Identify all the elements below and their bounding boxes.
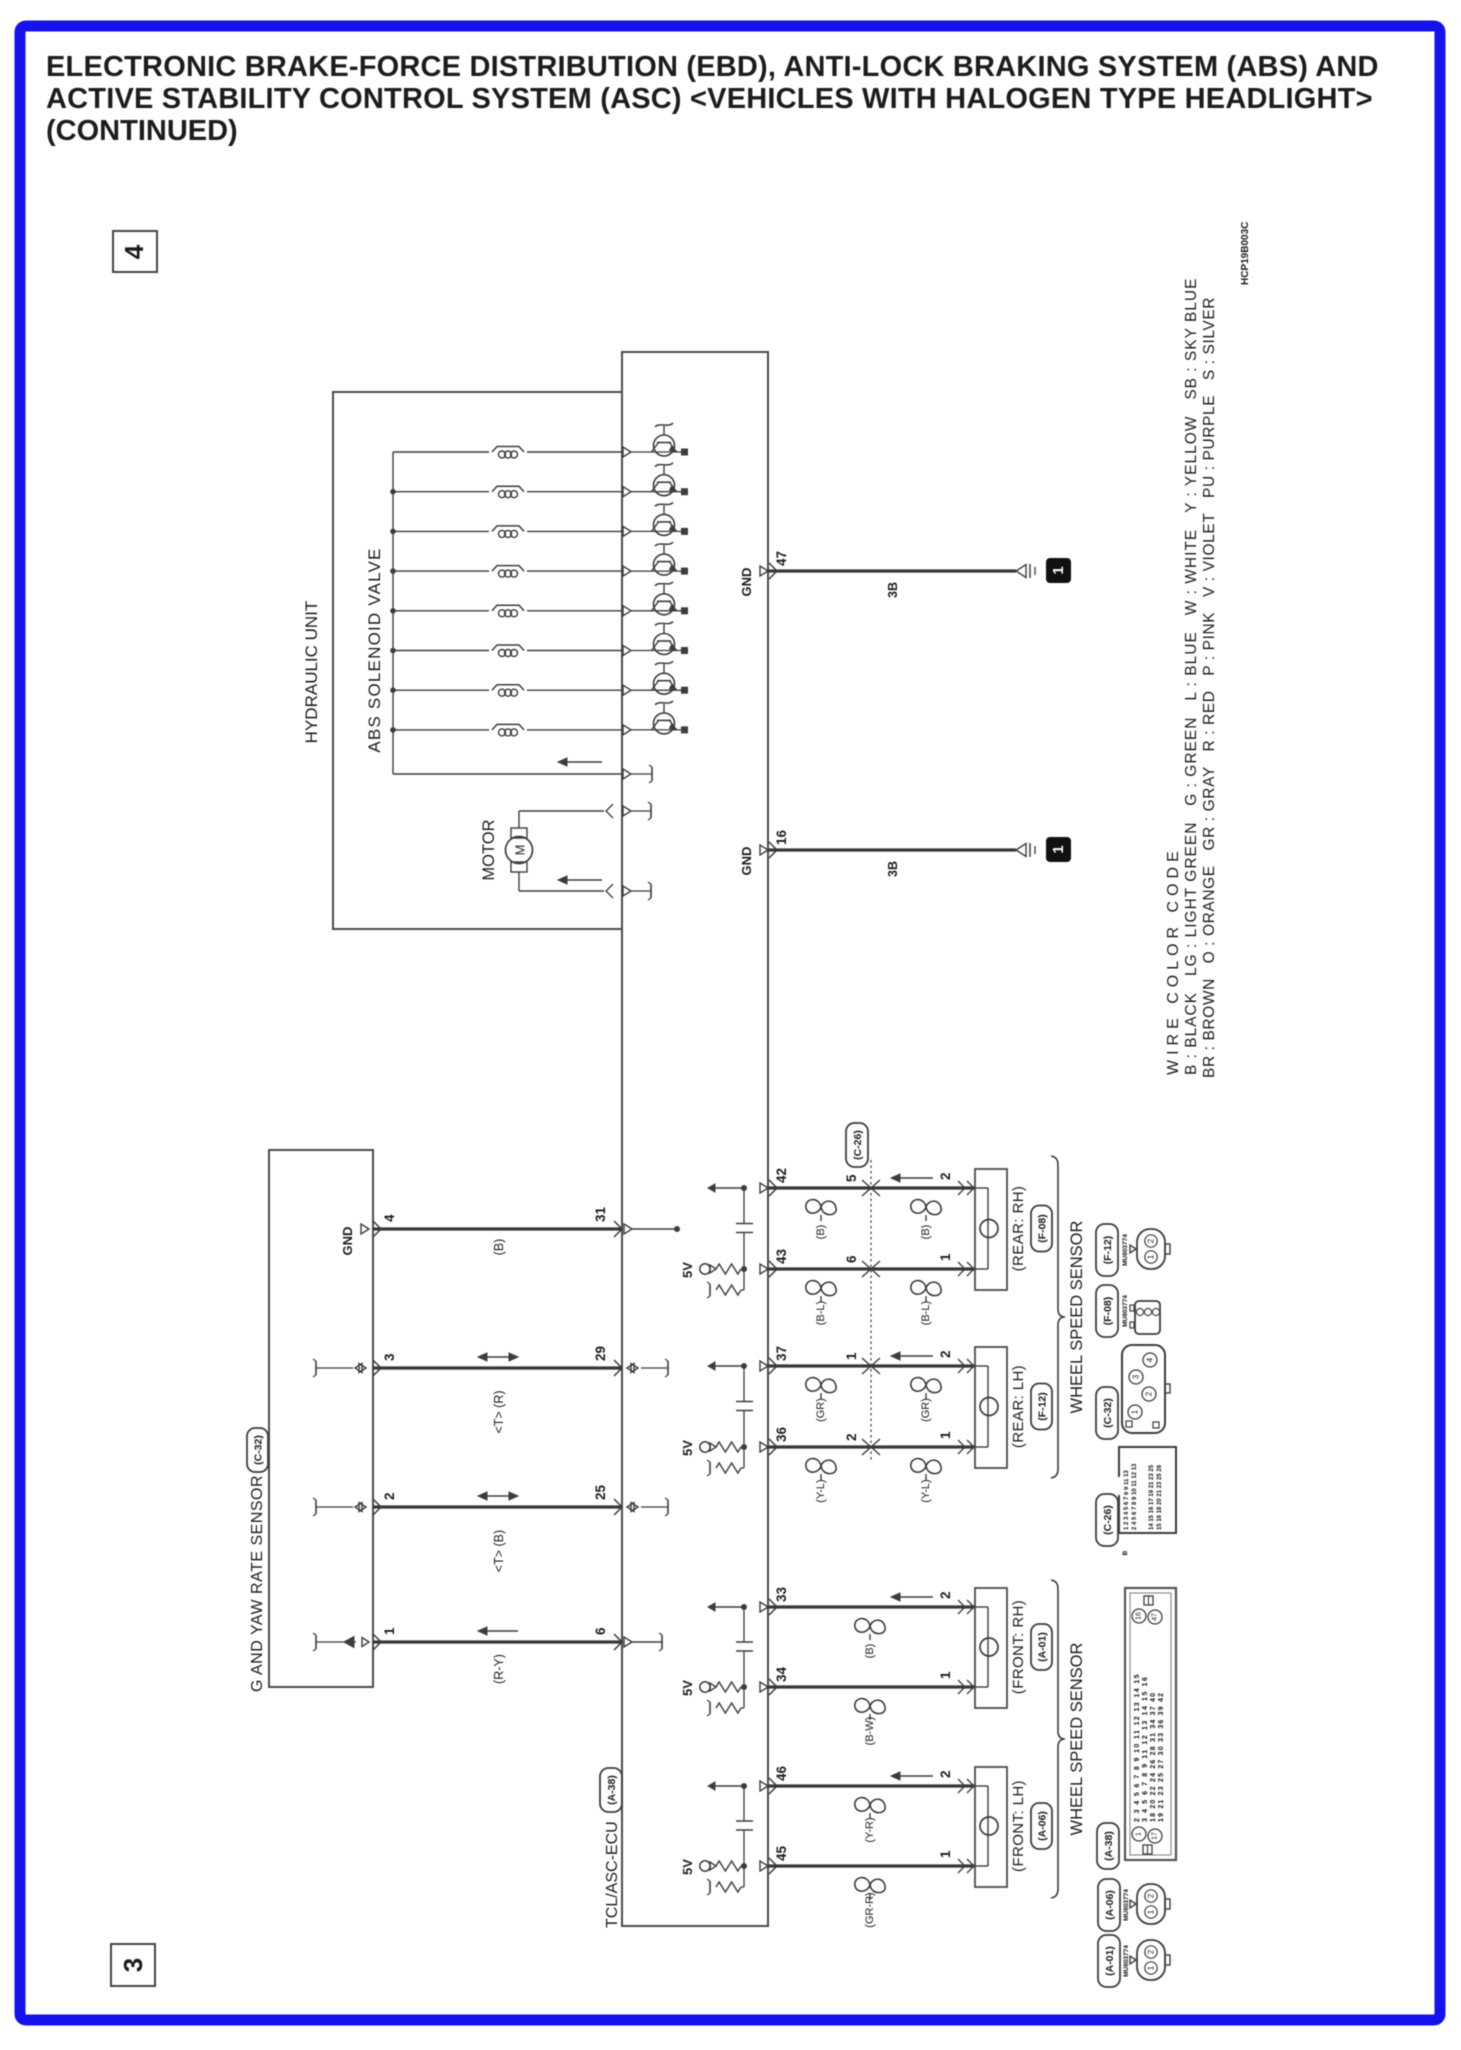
ECU pin 36 (REAR: LH) [760,1442,768,1452]
connector C-26 detail label [1096,1494,1118,1546]
svg-text:16: 16 [1136,1612,1143,1620]
svg-text:1: 1 [1131,1409,1140,1414]
svg-text:1 2 3 4 5 6 7 8 9 11 13: 1 2 3 4 5 6 7 8 9 11 13 [1124,1470,1130,1530]
bus junction node 3 [390,529,396,535]
ECU pin (solenoid return) [623,769,631,779]
wheel speed sensor wire 43 (REAR: RH) [768,1267,975,1270]
ECU internal termination (pin 25) [627,1503,634,1512]
twisted wire symbol (FRONT: RH 34) [855,1699,885,1714]
signal junction node (FRONT: LH) [741,1783,747,1789]
twisted wire symbol right (REAR: LH 37) [911,1378,941,1393]
ECU internal node (pin 6) [624,1637,632,1647]
solenoid valve coil L3 [492,526,524,532]
bus junction node 2 [390,489,396,495]
ECU pin 42 (REAR: RH) [760,1183,768,1193]
connector C-26 pin view [1119,1447,1176,1533]
svg-text:5: 5 [844,1174,859,1182]
svg-text:GND: GND [739,847,754,876]
svg-text:36: 36 [774,1426,789,1442]
svg-text:18 20 22 24 26 28 31 34 37 40: 18 20 22 24 26 28 31 34 37 40 [1150,1692,1157,1822]
svg-text:45: 45 [774,1845,789,1861]
ECU pin 6 [614,1634,622,1650]
driver transistor Q7 [654,673,675,694]
svg-text:(C-32): (C-32) [1102,1398,1114,1428]
connector C-32 pin view [1122,1345,1165,1433]
svg-text:(B-L): (B-L) [815,1301,827,1325]
svg-text:MU803774: MU803774 [1122,1295,1129,1327]
C-26 crossing mark (pin 5) [862,1180,871,1196]
ECU connector label A-38 [600,1768,622,1812]
solenoid valve coil L1 [492,447,524,453]
wheel speed sensor brace (rear) [1051,1156,1065,1478]
wheel speed sensor FRONT: RH (A-01) [975,1588,1007,1708]
solenoid valve coil L5 [492,605,524,611]
wire direction arrow [485,1630,518,1632]
ECU pin (solenoid 1) [623,447,631,457]
svg-text:(F-12): (F-12) [1036,1392,1048,1421]
svg-text:MU803774: MU803774 [1122,1234,1129,1266]
svg-text:MOTOR: MOTOR [480,819,498,880]
connector A-06 label [1098,1879,1120,1931]
motor + internal termination [650,804,652,818]
svg-text:2: 2 [938,1770,953,1778]
svg-text:TCL/ASC-ECU: TCL/ASC-ECU [604,1821,621,1928]
svg-text:16: 16 [774,829,789,845]
svg-text:3: 3 [1132,1374,1141,1379]
ECU pin (solenoid 4) [623,566,631,576]
svg-text:B: B [1122,1550,1129,1555]
wheel speed sensor brace (front) [1051,1580,1065,1898]
ECU internal termination (pin 29) [627,1364,634,1373]
connector C-32 label [1096,1387,1118,1439]
driver transistor Q5 [654,594,675,615]
driver transistor Q1 [654,435,675,456]
svg-text:(A-38): (A-38) [1103,1831,1115,1861]
svg-text:(C-26): (C-26) [852,1130,864,1160]
ground reference box 1 (pin 47) [1046,558,1071,583]
ECU pin (motor +) [623,806,631,816]
yaw sensor wire 2-25 [373,1505,622,1508]
svg-text:47: 47 [1152,1613,1159,1621]
solenoid valve coil L7 [492,685,524,691]
solenoid valve coil L8 [492,724,524,730]
chassis ground (pin 47) [1016,565,1026,578]
svg-text:(B): (B) [864,1644,876,1659]
ECU pin 46 (FRONT: LH) [760,1781,768,1791]
pump motor M1 [506,837,533,864]
sensor connector pin (REAR: RH 43) [958,1262,965,1276]
svg-text:2: 2 [1147,1893,1156,1898]
svg-text:19 21 23 25 27 30 33 36 39 42: 19 21 23 25 27 30 33 36 39 42 [1158,1692,1165,1822]
ground wire from pin 47 [768,569,1016,572]
connector F-08 pin view [1135,1301,1160,1334]
svg-text:1: 1 [938,1431,953,1439]
ECU pin (solenoid 8) [623,725,631,735]
sensor pin 4 [373,1221,381,1237]
svg-text:29: 29 [593,1346,608,1361]
ECU pin (solenoid 6) [623,646,631,656]
svg-text:2: 2 [938,1591,953,1599]
ECU pin 31 [614,1221,622,1237]
twisted wire symbol left (REAR: LH 37) [806,1378,836,1393]
solenoid return wire [393,773,622,775]
driver transistor Q6 [654,634,675,655]
svg-text:WHEEL SPEED SENSOR: WHEEL SPEED SENSOR [1068,1220,1086,1413]
svg-text:4: 4 [1146,1357,1155,1362]
connector A-38 label [1097,1823,1119,1869]
filter capacitor (FRONT: RH) [743,1607,745,1642]
svg-text:<T> (B): <T> (B) [492,1530,506,1572]
filter capacitor (FRONT: LH) [743,1786,745,1821]
svg-text:4: 4 [382,1214,397,1222]
solenoid valve coil L5 wire [393,610,489,612]
solenoid valve coil L4 wire [393,570,489,572]
svg-text:(A-01): (A-01) [1036,1632,1048,1662]
sensor connector pin (FRONT: RH 34) [958,1680,965,1694]
svg-text:3: 3 [382,1353,397,1361]
sensor connector label A-01 [1031,1624,1052,1670]
sensor connector pin (REAR: RH 42) [958,1181,965,1195]
driver transistor Q8 [654,713,675,734]
svg-text:1: 1 [938,1253,953,1261]
connector C-26 label [846,1123,868,1167]
ground wire from pin 16 [768,848,1016,851]
svg-text:2: 2 [1145,1391,1154,1396]
svg-text:2: 2 [1147,1949,1156,1954]
connector F-08 label [1096,1285,1118,1337]
svg-text:(REAR: RH): (REAR: RH) [1010,1186,1027,1272]
sensor pin 2 [373,1499,381,1515]
signal direction arrow (FRONT: RH) [898,1596,933,1598]
page link box 4 [113,231,157,272]
svg-text:(Y-R): (Y-R) [864,1817,876,1842]
sensor internal termination (pin 3) [315,1361,317,1375]
ECU pin 25 [614,1499,622,1515]
svg-text:6: 6 [593,1627,608,1635]
filter capacitor (REAR: LH) [743,1366,745,1402]
svg-text:3B: 3B [886,582,900,598]
connector A-01 label [1098,1935,1120,1987]
svg-text:5V: 5V [680,1262,695,1278]
yaw sensor wire 1-6 [373,1640,622,1643]
svg-text:2: 2 [1147,1238,1156,1243]
signal junction node (REAR: RH) [741,1185,747,1191]
wheel speed sensor wire 34 (FRONT: RH) [768,1685,975,1688]
bias resistor R (REAR: RH) [716,1285,741,1295]
solenoid valve coil L6 wire [393,650,489,652]
svg-text:WIRE COLOR CODE: WIRE COLOR CODE [1165,846,1182,1075]
svg-text:1: 1 [938,1850,953,1858]
bus junction node 7 [390,687,396,693]
solenoid valve coil L7 wire [393,689,489,691]
signal junction node (FRONT: RH) [741,1604,747,1610]
sensor connector pin (REAR: LH 37) [958,1359,965,1373]
sensor connector pin (REAR: LH 36) [958,1440,965,1454]
signal direction arrow (REAR: LH) [898,1355,933,1357]
ECU pin (solenoid 3) [623,526,631,536]
driver transistor Q4 [654,554,675,575]
svg-text:(A-01): (A-01) [1104,1946,1116,1976]
ECU pin 16 [760,845,768,855]
twisted wire symbol right (REAR: LH 36) [911,1459,941,1474]
svg-text:GND: GND [340,1227,355,1256]
svg-text:25: 25 [593,1484,608,1500]
svg-text:(R-Y): (R-Y) [492,1654,506,1684]
svg-text:(CONTINUED): (CONTINUED) [46,115,238,147]
svg-text:1: 1 [382,1627,397,1635]
wheel speed sensor REAR: LH (F-12) [975,1347,1007,1468]
twisted pair direction arrow [485,1495,511,1497]
bus junction node 4 [390,568,396,574]
svg-text:MU803774: MU803774 [1123,1889,1130,1921]
svg-text:(A-06): (A-06) [1104,1890,1116,1920]
wheel speed sensor wire 45 (FRONT: LH) [768,1864,975,1867]
svg-text:5V: 5V [680,1859,695,1875]
page link box 3 [111,1944,155,1986]
svg-text:(C-32): (C-32) [252,1435,264,1465]
ECU internal node (pin 31) [624,1224,632,1234]
svg-text:47: 47 [774,551,789,566]
twisted wire symbol right (REAR: RH 43) [911,1281,941,1296]
svg-text:<T> (R): <T> (R) [492,1390,506,1433]
sensor connector label C-32 [247,1428,268,1472]
svg-text:1: 1 [1147,1909,1156,1914]
twisted wire symbol left (REAR: RH 43) [806,1281,836,1296]
ECU pin 37 (REAR: LH) [760,1361,768,1371]
ECU pin (solenoid 7) [623,685,631,695]
ECU pin 33 (FRONT: RH) [760,1602,768,1612]
wheel speed sensor wire 36 (REAR: LH) [768,1445,975,1448]
wheel speed sensor FRONT: LH (A-06) [975,1767,1007,1887]
twisted wire symbol left (REAR: LH 36) [806,1459,836,1474]
twisted wire symbol right (REAR: RH 42) [911,1200,941,1215]
bus junction node 5 [390,608,396,614]
svg-text:(F-08): (F-08) [1102,1297,1114,1326]
solenoid valve coil L1 wire [393,451,489,453]
motor positive wire [518,811,520,828]
svg-text:42: 42 [774,1168,789,1183]
ECU pin 45 (FRONT: LH) [760,1861,768,1871]
yaw sensor wire 3-29 [373,1366,622,1369]
svg-text:ELECTRONIC BRAKE-FORCE DISTRIB: ELECTRONIC BRAKE-FORCE DISTRIBUTION (EBD… [46,51,1379,83]
connector A-38 pin view [1125,1588,1176,1860]
solenoid valve coil L2 [492,486,524,492]
svg-text:(FRONT: LH): (FRONT: LH) [1010,1780,1027,1872]
ECU pin 43 (REAR: RH) [760,1264,768,1274]
svg-text:(A-06): (A-06) [1036,1811,1048,1841]
hydraulic unit box [333,392,622,929]
svg-text:17: 17 [1152,1832,1159,1840]
sensor connector label F-12 [1031,1384,1052,1430]
connector A-01 pin view [1137,1940,1165,1980]
motor negative wire [518,872,520,891]
svg-text:(REAR: LH): (REAR: LH) [1010,1365,1027,1448]
ground reference box 1 (pin 16) [1046,837,1071,862]
C-26 crossing mark (pin 1) [862,1358,871,1374]
svg-text:2: 2 [844,1433,859,1441]
connector F-12 label [1096,1224,1118,1276]
return wire direction arrow [565,761,602,763]
svg-text:(FRONT: RH): (FRONT: RH) [1010,1600,1027,1694]
svg-text:G AND YAW RATE SENSOR: G AND YAW RATE SENSOR [249,1475,266,1692]
svg-text:2: 2 [938,1172,953,1180]
solenoid valve coil L2 wire [393,491,489,493]
svg-text:(Y-L): (Y-L) [815,1479,827,1502]
twisted wire symbol (FRONT: LH 45) [855,1878,885,1893]
wheel speed sensor wire 37 (REAR: LH) [768,1364,975,1367]
svg-text:ABS SOLENOID VALVE: ABS SOLENOID VALVE [365,547,384,752]
driver transistor Q3 [654,514,675,535]
bus junction node 6 [390,648,396,654]
ECU pin 47 [760,566,768,576]
wheel speed sensor REAR: RH (F-08) [975,1169,1007,1290]
svg-text:46: 46 [774,1765,789,1781]
inline connector (motor +) [606,804,613,818]
svg-text:B : BLACK LG : LIGHT GREEN: B : BLACK LG : LIGHT GREEN G : GREEN L :… [1183,278,1200,1075]
svg-text:1: 1 [1147,1254,1156,1259]
C-26 crossing mark (pin 6) [862,1261,871,1277]
svg-text:15 16 18 20 21 23 25 26: 15 16 18 20 21 23 25 26 [1157,1464,1163,1530]
svg-text:1: 1 [1050,566,1067,574]
svg-text:(Y-L): (Y-L) [920,1479,932,1502]
signal direction arrow (REAR: RH) [898,1177,933,1179]
sensor connector label F-08 [1031,1206,1052,1252]
sensor pin 3 [373,1360,381,1376]
svg-text:2 4 5 6 7 8 9 10 11 12 13: 2 4 5 6 7 8 9 10 11 12 13 [1132,1463,1138,1530]
svg-text:43: 43 [774,1248,789,1264]
ECU pin (solenoid 5) [623,606,631,616]
svg-text:2 3 4 5 6 7 8 9 10 11 12 13 14: 2 3 4 5 6 7 8 9 10 11 12 13 14 15 [1134,1673,1141,1822]
bias resistor R (REAR: LH) [716,1463,741,1473]
svg-text:1: 1 [1136,1832,1143,1836]
twisted pair direction arrow [485,1356,511,1358]
chassis ground (pin 16) [1016,844,1026,857]
ECU pin (solenoid 2) [623,487,631,497]
sensor internal termination (pin 1) [315,1635,317,1649]
svg-text:MU803774: MU803774 [1123,1945,1130,1977]
bias resistor R (FRONT: LH) [716,1882,741,1892]
svg-text:3B: 3B [886,861,900,877]
svg-text:14 15 16 17 19 21 23 25: 14 15 16 17 19 21 23 25 [1149,1464,1155,1530]
yaw sensor wire 4-31 [373,1227,622,1230]
svg-text:ACTIVE STABILITY CONTROL SYSTE: ACTIVE STABILITY CONTROL SYSTEM (ASC) <V… [46,83,1373,115]
svg-text:(B): (B) [492,1239,506,1256]
svg-text:WHEEL SPEED SENSOR: WHEEL SPEED SENSOR [1068,1642,1086,1835]
svg-text:(B-W): (B-W) [864,1717,876,1746]
solenoid valve coil L8 wire [393,729,489,731]
svg-text:37: 37 [774,1346,789,1361]
svg-text:1: 1 [938,1671,953,1679]
filter capacitor (REAR: RH) [743,1188,745,1224]
bus junction node 8 [390,727,396,733]
C-26 crossing mark (pin 2) [862,1439,871,1455]
signal junction node (REAR: LH) [741,1363,747,1369]
motor - internal termination [650,884,652,898]
twisted wire symbol left (REAR: RH 42) [806,1200,836,1215]
svg-text:(GR): (GR) [815,1398,827,1422]
svg-text:(B): (B) [815,1225,827,1240]
svg-text:(GR): (GR) [920,1398,932,1422]
svg-text:6: 6 [844,1255,859,1263]
svg-text:1: 1 [1050,845,1067,853]
sensor connector label A-06 [1031,1803,1052,1849]
motor wire direction arrow [565,879,602,881]
svg-text:BR : BROWN O : ORANGE GR :: BR : BROWN O : ORANGE GR : GRAY R : RED … [1201,297,1218,1078]
svg-text:2: 2 [938,1350,953,1358]
sensor connector pin (FRONT: LH 45) [958,1859,965,1873]
twisted wire symbol (FRONT: LH 46) [855,1798,885,1813]
svg-text:31: 31 [593,1206,608,1222]
svg-text:4: 4 [119,244,149,259]
wheel speed sensor wire 46 (FRONT: LH) [768,1784,975,1787]
inline connector (motor -) [606,884,613,898]
svg-text:3 4 5 6 7 8 9 11 12 13 14 15 1: 3 4 5 6 7 8 9 11 12 13 14 15 16 [1142,1675,1149,1822]
wheel speed sensor wire 42 (REAR: RH) [768,1186,975,1189]
ECU pin (motor -) [623,886,631,896]
TCL/ASC-ECU box U1 (A-38) [622,352,768,1926]
connector F-12 pin view [1137,1229,1165,1269]
solenoid valve coil L3 wire [393,530,489,532]
ECU pin 29 [614,1360,622,1376]
svg-text:(F-08): (F-08) [1036,1214,1048,1243]
solenoid valve coil L4 [492,566,524,572]
connector C-26 junction line [870,1160,872,1462]
svg-text:HCP19B003C: HCP19B003C [1240,222,1251,285]
svg-text:3: 3 [118,1958,148,1972]
svg-text:HYDRAULIC UNIT: HYDRAULIC UNIT [302,601,321,744]
svg-text:(F-12): (F-12) [1102,1236,1114,1265]
solenoid return internal termination [651,767,653,781]
sensor pin 1 [373,1634,381,1650]
driver transistor Q2 [654,475,675,496]
signal direction arrow (FRONT: LH) [898,1775,933,1777]
sensor internal termination (pin 2) [315,1500,317,1514]
G and yaw rate sensor box (C-32) [269,1150,373,1687]
svg-text:2: 2 [382,1492,397,1500]
bias resistor R (FRONT: RH) [716,1703,741,1713]
svg-text:33: 33 [774,1586,789,1602]
wheel speed sensor wire 33 (FRONT: RH) [768,1605,975,1608]
svg-text:(B): (B) [920,1225,932,1240]
svg-text:34: 34 [774,1666,789,1682]
svg-text:1: 1 [1147,1965,1156,1970]
connector A-06 pin view [1137,1884,1165,1924]
ECU pin 34 (FRONT: RH) [760,1682,768,1692]
svg-text:GND: GND [739,568,754,597]
svg-text:5V: 5V [680,1440,695,1456]
sensor connector pin (FRONT: RH 33) [958,1600,965,1614]
solenoid valve coil L6 [492,645,524,651]
twisted wire symbol (FRONT: RH 33) [855,1619,885,1634]
svg-text:1: 1 [844,1352,859,1360]
svg-text:5V: 5V [680,1680,695,1696]
svg-text:(B-L): (B-L) [920,1301,932,1325]
svg-text:(GR-R): (GR-R) [864,1892,876,1927]
solenoid supply bus wire [392,452,394,774]
svg-text:(C-26): (C-26) [1102,1505,1114,1535]
svg-text:M: M [513,845,528,856]
svg-text:(A-38): (A-38) [606,1775,618,1805]
sensor connector pin (FRONT: LH 46) [958,1779,965,1793]
